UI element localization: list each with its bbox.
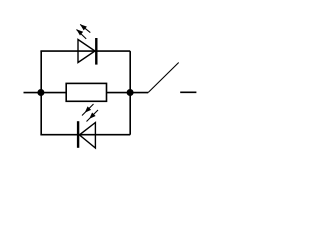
switch S1 moving contact (open blade) <box>148 63 179 93</box>
LED D1 cathode bar <box>95 38 97 65</box>
junction dot: node A (left) <box>37 89 44 96</box>
LED D1 light arrow (upper) <box>80 24 90 32</box>
wire: top rail <box>40 50 130 52</box>
wire: left lead into node A <box>24 92 67 94</box>
wire: right vertical branch bus <box>129 51 131 135</box>
junction dot: node B (right) <box>127 89 134 96</box>
wire: left vertical branch bus <box>40 51 42 135</box>
photodiode D2 light arrow (lower) <box>87 110 99 122</box>
switch S1 fixed terminal lead <box>180 91 196 93</box>
wire: middle rail from resistor to switch <box>107 92 149 94</box>
wire: bottom rail <box>40 134 130 136</box>
LED D1 light arrow (lower) <box>76 29 86 39</box>
photodiode D2 light arrow (upper) <box>82 104 94 116</box>
LED D1 triangle (top branch, anode left) <box>78 40 95 63</box>
photodiode D2 triangle (bottom branch, cathode left) <box>79 123 95 149</box>
photodiode D2 cathode bar <box>77 121 79 148</box>
resistor R1 (middle branch) <box>66 83 106 101</box>
